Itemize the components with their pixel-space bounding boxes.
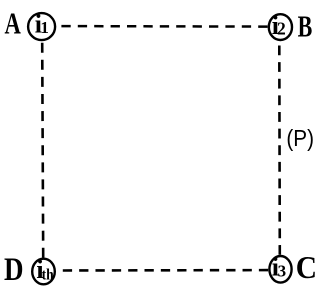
svg-text:2: 2 (277, 18, 286, 38)
wire AB (top dashed) (61, 25, 267, 28)
current source i2 circle (269, 14, 292, 40)
current source i3 circle (269, 256, 291, 283)
current source i1 circle (28, 13, 55, 40)
svg-text:C: C (296, 250, 317, 285)
svg-text:3: 3 (278, 261, 287, 280)
svg-text:A: A (5, 6, 22, 40)
wire AD (left dashed) (42, 43, 43, 258)
wire DC (bottom dashed) (63, 269, 268, 272)
svg-text:D: D (4, 251, 24, 286)
wire BC (right dashed) (278, 46, 281, 255)
current source ith circle (32, 259, 55, 285)
svg-text:(P): (P) (286, 125, 314, 151)
svg-text:th: th (42, 266, 55, 283)
svg-text:B: B (298, 9, 313, 44)
svg-text:1: 1 (40, 18, 49, 37)
